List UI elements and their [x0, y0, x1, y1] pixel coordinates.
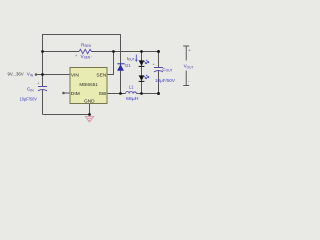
- inductor L1 coil: [126, 91, 137, 93]
- diode D1 (freewheeling): [117, 64, 125, 71]
- svg-text:VOUT: VOUT: [184, 64, 194, 70]
- node: D1 anode / SW junction: [119, 92, 122, 95]
- svg-text:GND: GND: [84, 98, 95, 104]
- svg-text:SW: SW: [99, 91, 107, 97]
- node: VIN input junction: [41, 73, 44, 76]
- svg-text:+: +: [153, 63, 155, 67]
- capacitor C2 (COUT) polarized: [154, 68, 163, 72]
- svg-text:68µH: 68µH: [126, 96, 139, 101]
- wire: main top wire (VIN to RSEN left): [43, 51, 80, 53]
- wire: SW wire chip to L1: [107, 93, 126, 95]
- svg-text:MBI6651: MBI6651: [79, 82, 98, 87]
- svg-text:SEN: SEN: [96, 72, 106, 78]
- terminal: DIM input: [62, 92, 65, 95]
- wire: GND stub from chip: [89, 104, 91, 115]
- svg-text:VIN: VIN: [71, 72, 80, 78]
- node: COUT top corner: [157, 50, 160, 53]
- wire: SEN pin to top wire: [107, 52, 114, 75]
- svg-text:D1: D1: [125, 63, 131, 68]
- svg-text:IOUT: IOUT: [127, 56, 135, 62]
- wire: upper loop VIN rail to D1 cathode: [43, 35, 121, 52]
- terminal: VIN input: [35, 73, 38, 76]
- wire: COUT vertical top lead: [158, 52, 160, 68]
- wire: CIN bottom lead to ground rail: [42, 90, 44, 115]
- wire: D1 branch vertical (crosses main wire, down to SW node): [120, 52, 122, 94]
- wire: bottom ground rail: [43, 114, 90, 116]
- node: COUT bottom corner: [157, 92, 160, 95]
- wire: DIM stub: [64, 92, 71, 94]
- capacitor C1 (CIN) polarized: [38, 87, 47, 91]
- wire: LED string vertical: [141, 52, 143, 94]
- svg-text:VSEN: VSEN: [81, 54, 91, 60]
- node: GND junction: [88, 113, 91, 116]
- ground: [85, 116, 94, 122]
- wire: L1 right to COUT bottom: [137, 93, 159, 95]
- svg-text:CIN: CIN: [27, 87, 34, 93]
- wire: COUT vertical bottom lead: [158, 71, 160, 94]
- svg-text:VIN: VIN: [27, 72, 34, 78]
- svg-text:+: +: [37, 82, 39, 86]
- wire: VIN input wire to chip: [36, 74, 70, 76]
- resistor R1 (RSEN) zigzag: [79, 49, 92, 53]
- node: SEN junction on top wire: [112, 50, 115, 53]
- wire: main top wire (RSEN right to COUT top): [92, 51, 159, 53]
- node: VIN junction on top wire: [41, 50, 44, 53]
- wire: left main vertical (VIN node down to CIN top plate): [42, 52, 44, 87]
- LED D3 (bottom LED): [139, 75, 150, 82]
- op-amp U1 : MBI6651 chip body: [70, 68, 107, 104]
- svg-text:10µF/50V: 10µF/50V: [155, 78, 175, 83]
- svg-text:9V...36V: 9V...36V: [8, 72, 24, 77]
- VOUT measurement annotation: [183, 46, 189, 86]
- LED D2 (top LED): [139, 60, 150, 67]
- node: LED bottom junction: [140, 92, 143, 95]
- svg-text:RSEN: RSEN: [81, 42, 92, 48]
- node: LED top junction: [140, 50, 143, 53]
- svg-text:10µF/50V: 10µF/50V: [20, 96, 38, 101]
- svg-text:DIM: DIM: [71, 91, 80, 97]
- svg-text:L1: L1: [129, 84, 134, 89]
- arrow IOUT: [135, 55, 138, 63]
- svg-text:COUT: COUT: [162, 67, 172, 73]
